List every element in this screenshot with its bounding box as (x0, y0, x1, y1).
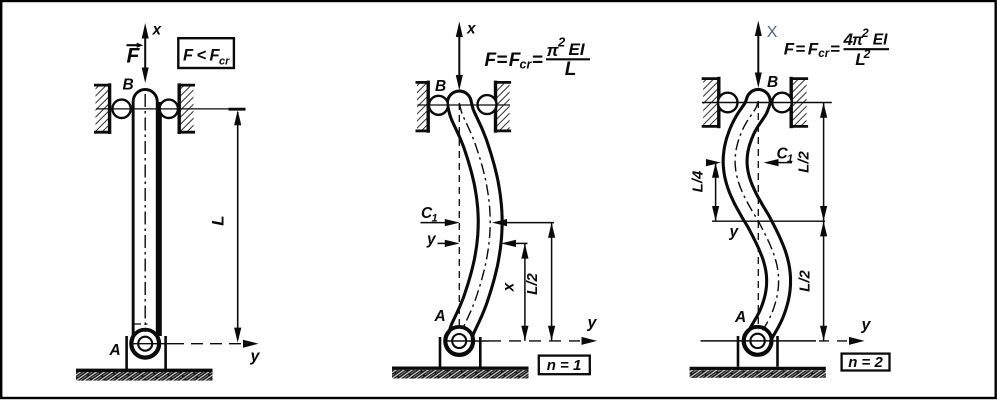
svg-text:y: y (250, 348, 261, 365)
svg-text:<: < (197, 47, 207, 65)
svg-text:L: L (565, 59, 577, 80)
svg-text:=: = (496, 50, 507, 71)
svg-text:A: A (109, 342, 121, 359)
svg-text:1: 1 (787, 153, 793, 165)
svg-text:B: B (123, 77, 134, 94)
svg-text:L/2: L/2 (797, 270, 814, 292)
svg-text:1: 1 (432, 213, 438, 225)
svg-text:x: x (466, 21, 477, 38)
svg-text:B: B (435, 78, 446, 95)
svg-text:A: A (734, 309, 746, 326)
svg-text:=: = (795, 40, 805, 59)
svg-text:L: L (209, 215, 228, 225)
svg-text:cr: cr (818, 48, 829, 60)
svg-text:B: B (767, 74, 778, 91)
svg-text:L/4: L/4 (690, 170, 707, 192)
svg-text:A: A (434, 308, 446, 325)
svg-text:n = 1: n = 1 (547, 357, 582, 374)
svg-text:EI: EI (569, 40, 586, 59)
svg-text:L/2: L/2 (524, 273, 541, 295)
svg-text:y: y (587, 315, 598, 332)
svg-text:X: X (767, 24, 778, 41)
svg-text:F: F (808, 40, 819, 59)
svg-text:F: F (127, 45, 141, 68)
svg-text:2: 2 (557, 35, 566, 50)
svg-text:2: 2 (863, 47, 871, 61)
svg-text:x: x (501, 281, 518, 292)
svg-text:cr: cr (219, 56, 230, 68)
svg-text:n = 2: n = 2 (848, 354, 883, 371)
svg-text:F: F (183, 47, 194, 65)
svg-text:F: F (784, 40, 795, 59)
svg-text:cr: cr (520, 58, 533, 72)
svg-text:L/2: L/2 (796, 151, 813, 173)
svg-text:2: 2 (861, 26, 869, 40)
svg-text:y: y (729, 224, 740, 241)
svg-text:=: = (532, 50, 543, 71)
svg-text:y: y (861, 317, 872, 334)
svg-text:EI: EI (873, 32, 888, 49)
svg-text:y: y (426, 231, 437, 248)
svg-text:=: = (830, 40, 840, 59)
svg-text:x: x (152, 22, 163, 39)
